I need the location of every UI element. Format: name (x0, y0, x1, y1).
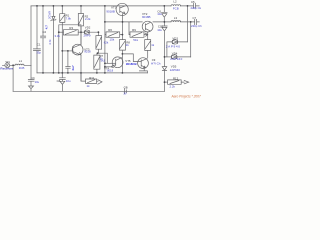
svg-text:C5: C5 (191, 0, 195, 4)
svg-text:2AP9: 2AP9 (84, 34, 91, 38)
capacitor C2 (41, 36, 46, 73)
diode VD4 (horizontal y56.9) (172, 55, 191, 59)
resistor R5 (vertical vbox-a) (96, 36, 102, 50)
svg-text:9018CB: 9018CB (126, 62, 137, 66)
microphone B1 (5, 63, 10, 68)
wire VT3 emitter down to output (80, 55, 82, 81)
svg-text:10u: 10u (35, 80, 40, 84)
inductor L3 (153, 21, 194, 22)
transistor VT2 circle (142, 21, 153, 32)
svg-text:C8: C8 (57, 79, 61, 83)
svg-text:2.2k: 2.2k (170, 85, 176, 89)
svg-text:51k: 51k (133, 38, 138, 42)
emitter arrow VT2 (145, 33, 148, 36)
resistor R8 (vertical vbox1) (119, 40, 125, 54)
output arrow left (97, 80, 102, 84)
svg-text:1k: 1k (87, 84, 91, 88)
transistor VT4 internals (111, 58, 121, 68)
wire bottom rail (13, 90, 164, 92)
wire left vertical A (30, 6, 32, 65)
svg-text:L1: L1 (19, 59, 23, 63)
capacitor C9 (x31 to gnd) (28, 65, 34, 91)
wire right vertical x187.5 (187, 6, 189, 42)
svg-text:15k: 15k (110, 37, 115, 41)
svg-text:R6: R6 (108, 28, 112, 32)
transistor VT3 (T2 mid-left) circle (72, 44, 83, 55)
wire rail2 left (105, 21, 142, 23)
wire dot53 to right (98, 53, 108, 63)
svg-text:2CW9: 2CW9 (48, 11, 52, 19)
capacitor C1 (33, 49, 40, 73)
transistor VT1 internals (120, 6, 125, 14)
wire mic down to rail (12, 65, 14, 91)
svg-text:2.2k: 2.2k (85, 17, 91, 21)
svg-text:2AP940: 2AP940 (170, 57, 182, 61)
svg-text:9018B: 9018B (142, 15, 151, 19)
wire dot53.9 to T4 base (122, 54, 141, 62)
wire right vertical x190.7 (190, 22, 192, 57)
wire bus to output corner (81, 73, 85, 81)
diode VD3 (horizontal y41.9) (172, 40, 187, 44)
svg-text:220p Ck: 220p Ck (191, 6, 202, 10)
diode VD5 (vertical) (162, 57, 167, 91)
wire R3 to VD2 (78, 31, 84, 33)
svg-text:Receiver: Receiver (0, 66, 14, 70)
svg-text:9018B: 9018B (106, 9, 115, 13)
resistor R6 (horizontal box1) (105, 32, 123, 37)
svg-text:C1: C1 (37, 42, 41, 46)
transistor VT2 internals (145, 22, 150, 31)
zener diode VD1 (51, 6, 56, 73)
svg-text:FCB: FCB (19, 66, 25, 70)
svg-text:3.3k: 3.3k (55, 34, 61, 38)
resistor R1 (vertical, x62) body (60, 6, 65, 73)
output arrow right (181, 81, 189, 84)
wire vertical x105 (rail1-rail2-base) (104, 6, 106, 73)
transistor VT4 (T3) circle (112, 57, 123, 68)
electrolytic C6 (between rails) (162, 6, 168, 22)
resistor R3 (horizontal) (63, 30, 78, 35)
wire vertical x122 chain (121, 22, 123, 40)
svg-text:GB: GB (124, 85, 128, 89)
capacitor C5 plates (194, 3, 196, 8)
wire VT3 collector up (80, 26, 82, 44)
svg-text:L2: L2 (173, 0, 177, 4)
svg-text:4.7: 4.7 (45, 25, 49, 30)
resistor R11 (output left) (86, 79, 97, 83)
svg-text:R3: R3 (69, 26, 73, 30)
junction dots (12, 5, 191, 83)
resistor R10 (vertical vbox2) (145, 40, 151, 58)
capacitor C4 (x68) (66, 51, 71, 73)
wire bottom bus (37, 72, 147, 74)
wire mid vertical x58.8 (59, 25, 81, 73)
svg-text:R9: R9 (132, 28, 136, 32)
inductor L1 (15, 64, 24, 65)
svg-text:VD3: VD3 (172, 37, 178, 41)
svg-text:1k: 1k (151, 43, 155, 47)
transistor VT3 base/emitter/collector (73, 44, 81, 55)
svg-text:9018: 9018 (84, 50, 91, 54)
wire vbox-a column (98, 32, 100, 35)
svg-text:L3: L3 (174, 16, 178, 20)
svg-text:2AP940: 2AP940 (170, 68, 181, 72)
wire vertical C top (42, 6, 44, 36)
svg-text:Aaro Projects * 2007: Aaro Projects * 2007 (171, 94, 201, 98)
transistor VT1 circle (116, 3, 128, 15)
wire top rail VCC (31, 5, 199, 7)
wire rail2 vertical x129 (129, 22, 130, 35)
svg-text:10u: 10u (157, 28, 162, 32)
wire base row y50.9 (62, 50, 73, 52)
wire T3 collector/emitter vertical (121, 54, 123, 73)
resistor R2 (vertical, x81) body (78, 6, 83, 45)
capacitor C7 plates (195, 19, 200, 24)
svg-text:4u7: 4u7 (71, 65, 75, 71)
wire VT1 emitter to rail2 (122, 14, 124, 22)
resistor R12 (output right) (168, 80, 182, 84)
wire vertical B top (36, 6, 38, 49)
battery GB (125, 89, 127, 94)
resistor R9 (horizontal box2) (130, 32, 148, 37)
wire out right junction (165, 81, 168, 83)
svg-text:4.7k: 4.7k (48, 39, 52, 45)
svg-text:R11: R11 (89, 76, 94, 80)
svg-text:10u: 10u (66, 79, 71, 83)
svg-text:33p: 33p (36, 50, 41, 54)
wire T3 base (105, 62, 116, 64)
svg-text:VD4: VD4 (172, 51, 178, 55)
transistor VT5 (T4) circle (138, 58, 149, 69)
wire VT2 emitter down chain (147, 32, 149, 40)
transistor VT5 internals (141, 58, 147, 67)
svg-text:10u: 10u (157, 12, 162, 16)
svg-text:220p Ch: 220p Ch (191, 24, 202, 28)
svg-text:VD2: VD2 (85, 25, 91, 29)
svg-text:7.8k: 7.8k (66, 17, 72, 21)
svg-text:H?I Ch: H?I Ch (151, 61, 161, 65)
diode VD2 (84, 30, 89, 35)
wire VT5 emitter to bus (139, 68, 147, 73)
inductor L2 (171, 5, 181, 6)
svg-text:R12: R12 (173, 77, 179, 81)
capacitor C8 (x62 to gnd) (60, 73, 66, 91)
svg-text:C9: C9 (32, 78, 36, 80)
resistor R7 (vertical vbox-b) (94, 53, 100, 73)
svg-text:C7: C7 (193, 16, 197, 20)
wire T3 emitter row (105, 66, 111, 68)
wire row y32 (59, 31, 64, 33)
electrolytic C10 (rail2 down) (162, 22, 168, 57)
svg-text:FCB: FCB (173, 6, 179, 10)
svg-text:2AP940: 2AP940 (166, 44, 181, 48)
svg-text:W1: W1 (6, 60, 11, 64)
svg-text:C2: C2 (42, 30, 46, 34)
